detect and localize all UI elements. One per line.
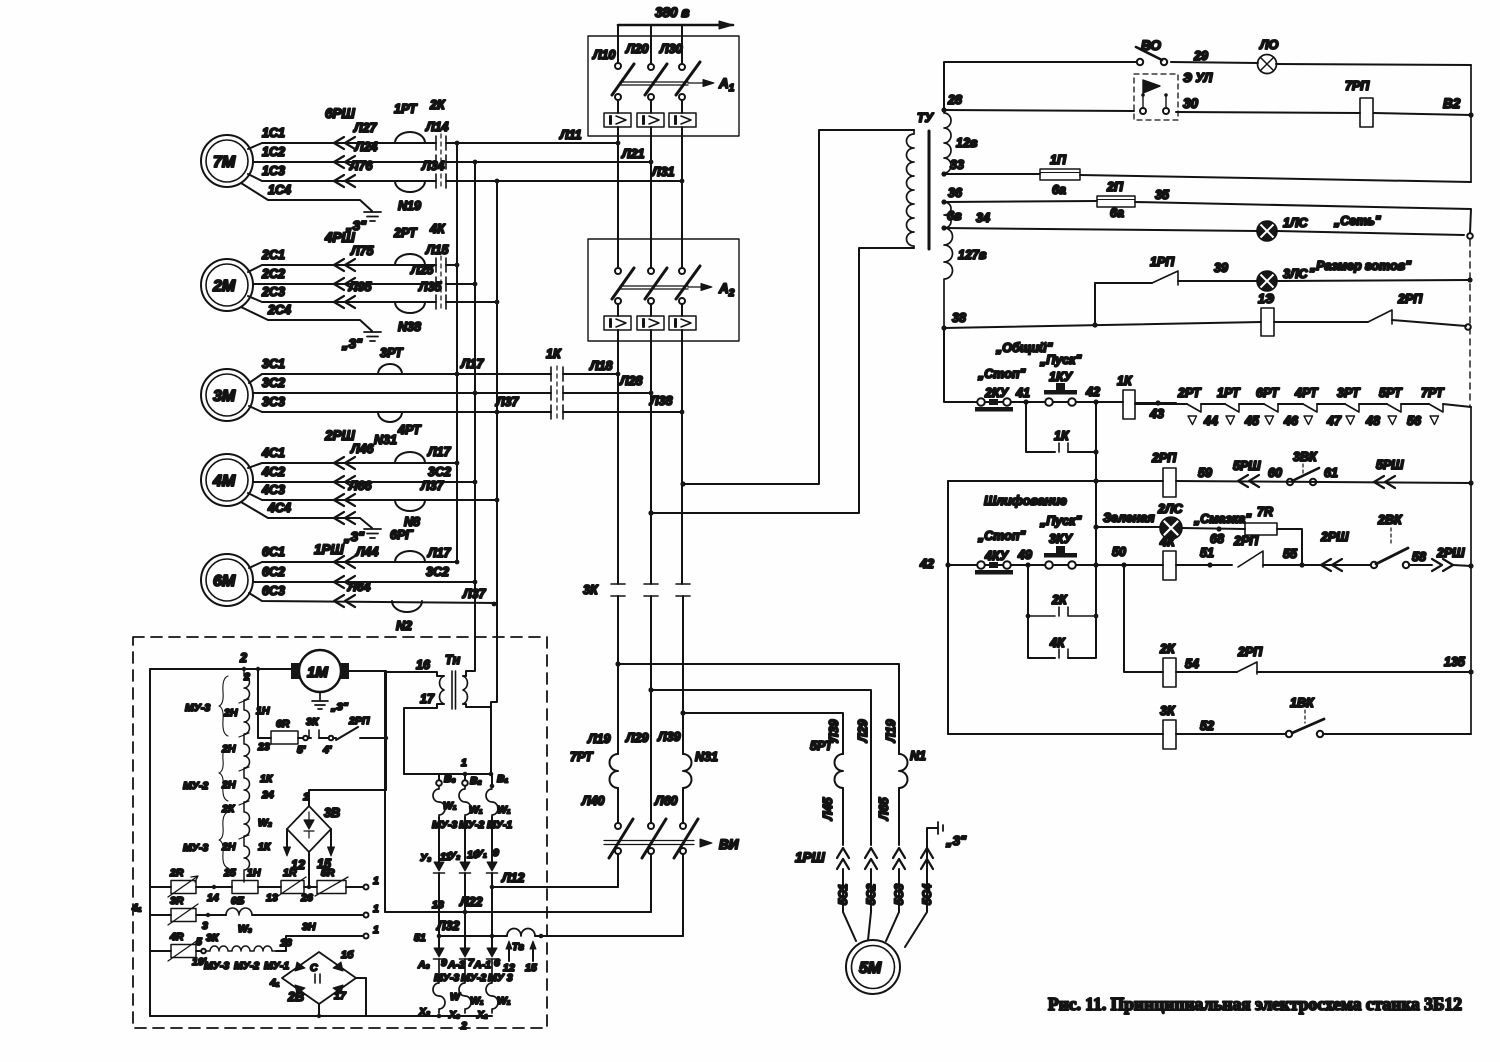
- wire 1К to РТ chain: [1135, 402, 1176, 404]
- wire branch 5M phase3: [683, 713, 843, 754]
- svg-text:1КУ: 1КУ: [1049, 370, 1074, 384]
- ground 1M: [312, 692, 328, 709]
- terminal 1 row A: [364, 885, 369, 890]
- overload heater N8: [395, 500, 425, 511]
- svg-text:7РП: 7РП: [1345, 79, 1370, 93]
- lamp 3ЛС: [1257, 271, 1277, 291]
- svg-text:W₁: W₁: [443, 800, 457, 812]
- winding МУ-2 upper: [459, 786, 471, 817]
- svg-text:2С4: 2С4: [267, 303, 291, 317]
- svg-text:Л37: Л37: [420, 479, 445, 493]
- svg-text:Л64: Л64: [347, 580, 371, 594]
- svg-text:С: С: [310, 962, 318, 974]
- brace MU-3 lower: [219, 812, 228, 868]
- svg-text:51: 51: [414, 932, 426, 944]
- contact 6РТ: [1264, 404, 1278, 412]
- svg-text:3R: 3R: [170, 895, 184, 907]
- overload heater 2RT: [395, 254, 425, 265]
- switch ВИ linkage arrow: [604, 841, 694, 845]
- motor 7M: [201, 135, 253, 187]
- wire 5РТ to chevrons phase3: [842, 788, 844, 845]
- transformer ТУ primary winding: [907, 130, 914, 248]
- svg-text:А-1: А-1: [473, 959, 491, 971]
- svg-text:„Смазка": „Смазка": [1193, 512, 1252, 526]
- svg-text:1ЛС: 1ЛС: [1283, 216, 1309, 230]
- button Стоп 2КУ: [968, 398, 1026, 411]
- svg-text:Л14: Л14: [425, 120, 449, 134]
- svg-text:„Размер готов": „Размер готов": [1309, 259, 1412, 273]
- svg-text:30: 30: [1183, 96, 1199, 111]
- wire row Л12: [492, 886, 618, 888]
- svg-text:7R: 7R: [1257, 505, 1273, 519]
- resistor row A wire: [150, 886, 171, 888]
- terminal row38 end: [1465, 324, 1471, 330]
- svg-text:1С2: 1С2: [262, 145, 285, 159]
- wire 54 row: [1176, 671, 1471, 673]
- thermal trip element A1 pole2: [637, 113, 664, 127]
- diode А2: [460, 948, 470, 957]
- amplifier unit dashed enclosure: [133, 637, 547, 1028]
- terminal В2: [464, 774, 466, 780]
- solenoid ЭУЛ contacts: [1140, 108, 1146, 114]
- svg-text:6РГ: 6РГ: [390, 528, 414, 542]
- connector chevrons 5С3: [893, 848, 905, 869]
- svg-text:1М: 1М: [307, 664, 328, 681]
- svg-text:„Сеть": „Сеть": [1333, 214, 1382, 228]
- svg-text:1: 1: [373, 875, 379, 887]
- connector chevrons 4C3: [334, 494, 355, 506]
- transformer Тн left coil: [440, 676, 444, 704]
- svg-text:6а: 6а: [1052, 183, 1066, 197]
- svg-text:4РШ: 4РШ: [324, 230, 356, 245]
- wire phase bus x497: [491, 181, 497, 706]
- svg-text:52: 52: [1200, 719, 1214, 733]
- svg-text:35: 35: [1155, 188, 1170, 202]
- svg-text:9: 9: [441, 957, 447, 969]
- resistor 2R: [171, 881, 196, 894]
- capacitor in 2В: [315, 974, 320, 983]
- svg-text:17: 17: [334, 990, 347, 1002]
- thermal trip element A2 pole3: [669, 316, 696, 330]
- svg-text:1К: 1К: [258, 841, 272, 853]
- svg-text:W₁: W₁: [470, 995, 484, 1007]
- relay coil 3К: [1163, 720, 1176, 749]
- winding МУ-1 lower: [486, 959, 498, 1013]
- svg-text:2Н: 2Н: [221, 779, 236, 791]
- wire 6C3: [249, 593, 497, 603]
- breaker A1 pole 3 lower contact: [679, 94, 685, 100]
- switch ВО right contact: [1161, 59, 1167, 65]
- contact 2РП (54 row break): [1237, 662, 1257, 674]
- svg-text:2РП: 2РП: [1237, 645, 1263, 659]
- svg-text:Л19: Л19: [587, 732, 611, 746]
- wire phase L10 drop to A1: [617, 25, 619, 62]
- svg-text:Х₂: Х₂: [418, 1006, 430, 1018]
- svg-text:МУ-3: МУ-3: [185, 702, 210, 714]
- resistor 1R: [281, 881, 304, 894]
- svg-text:4РТ: 4РТ: [397, 423, 422, 437]
- breaker box A2: [588, 239, 739, 341]
- button Стоп 4КУ: [968, 561, 1028, 574]
- relay coil 1К: [1123, 390, 1135, 419]
- junction dots 2К aux row: [1026, 614, 1099, 619]
- svg-text:6в: 6в: [947, 209, 962, 223]
- svg-text:6М: 6М: [213, 573, 236, 590]
- terminal 4': [329, 736, 334, 741]
- terminal 5': [298, 737, 303, 739]
- svg-text:7М: 7М: [213, 154, 236, 171]
- svg-text:В₂: В₂: [470, 775, 482, 787]
- junction dot 42 left bus: [945, 562, 950, 567]
- svg-text:Л24: Л24: [354, 140, 378, 154]
- connector chevrons 2C2: [334, 278, 355, 290]
- terminal В1: [491, 774, 493, 786]
- svg-text:26: 26: [300, 892, 313, 904]
- Тг tap 15: [532, 946, 534, 961]
- breaker A1 pole 2 blade: [645, 64, 667, 95]
- connector chevrons 1C2: [334, 156, 355, 168]
- resistor 5R: [304, 886, 317, 888]
- ground 2M: [364, 332, 381, 341]
- svg-text:Л32: Л32: [436, 919, 460, 933]
- breaker A1 trip arrow to A1: [688, 82, 712, 84]
- svg-text:2R: 2R: [169, 867, 184, 879]
- svg-text:W: W: [450, 991, 461, 1003]
- svg-text:4С1: 4С1: [261, 446, 285, 460]
- wire pole1 to trip element: [617, 100, 619, 113]
- svg-text:2РП: 2РП: [348, 715, 370, 727]
- bridge 2В diodes: [295, 962, 343, 994]
- connector chevrons 6C1: [334, 556, 355, 568]
- svg-text:4R: 4R: [169, 931, 184, 943]
- wire phase bus x457: [456, 143, 458, 562]
- motor 4M: [201, 454, 253, 506]
- svg-text:1: 1: [461, 757, 467, 769]
- switch ВИ pole1 blade: [609, 819, 633, 858]
- wire 5С2 to motor: [868, 869, 871, 940]
- svg-text:N2: N2: [396, 619, 412, 633]
- wire column x618 3K to VI: [617, 596, 619, 823]
- contact 4К aux: [1059, 649, 1068, 658]
- winding chain MU (vertical): [244, 669, 250, 882]
- svg-text:2РШ: 2РШ: [1436, 546, 1465, 560]
- svg-text:Л19: Л19: [884, 719, 898, 743]
- winding МУ-3 upper: [433, 786, 445, 817]
- button Пуск 1КУ: [1026, 383, 1096, 406]
- junction dots Л32: [437, 934, 544, 939]
- svg-text:4С2: 4С2: [261, 465, 285, 479]
- svg-text:„Стоп": „Стоп": [977, 367, 1026, 381]
- wire РТ chain to right edge: [1443, 404, 1471, 407]
- transformer ТУ secondary 12в: [944, 110, 951, 174]
- wire L21 bus column x651 A1 to A2: [650, 127, 652, 268]
- junction dots A-columns: [616, 141, 685, 415]
- svg-text:28: 28: [947, 93, 962, 107]
- svg-text:Л17: Л17: [427, 445, 452, 459]
- resistor 7R: [1245, 523, 1277, 535]
- contact 1K pole2: [551, 386, 563, 400]
- wire node 2 top row: [150, 668, 299, 670]
- svg-text:33: 33: [950, 158, 964, 172]
- winding МУ-3 lower: [433, 959, 445, 1013]
- junction dot 59 right: [1468, 480, 1473, 485]
- chain tap ticks: [239, 699, 249, 839]
- svg-text:МУ-3: МУ-3: [204, 960, 229, 972]
- wire 1C2: [253, 161, 651, 163]
- svg-text:МУ-3: МУ-3: [183, 842, 208, 854]
- svg-text:МУ-2: МУ-2: [234, 960, 259, 972]
- svg-text:6С1: 6С1: [262, 545, 285, 559]
- svg-text:2РП: 2РП: [1151, 451, 1177, 465]
- svg-text:Л39: Л39: [827, 719, 841, 743]
- svg-text:Л29: Л29: [856, 719, 870, 743]
- wire ВИ pole3 down to Л32 row: [682, 854, 684, 936]
- svg-text:1РТ: 1РТ: [1217, 386, 1241, 400]
- node 43: [1155, 400, 1160, 405]
- svg-text:51: 51: [1200, 546, 1214, 560]
- junction dot bottom row: [317, 1014, 321, 1018]
- connector chevrons 4C4: [334, 512, 355, 524]
- transformer ТУ core: [928, 131, 931, 249]
- wires below У diodes: [439, 873, 492, 948]
- svg-text:3К: 3К: [206, 932, 220, 944]
- svg-text:2В: 2В: [287, 990, 304, 1004]
- svg-text:Рис. 11. Принципиальная электр: Рис. 11. Принципиальная электросхема ста…: [1048, 994, 1462, 1014]
- switch ВИ pole1 contacts: [615, 823, 621, 829]
- svg-text:68: 68: [1210, 532, 1224, 546]
- connector chevrons 2РШ left: [1321, 559, 1342, 571]
- contact 4K pole2: [436, 277, 446, 291]
- svg-text:3С2: 3С2: [262, 376, 285, 390]
- svg-text:1РШ: 1РШ: [795, 850, 826, 865]
- svg-text:2: 2: [239, 651, 247, 665]
- svg-text:Тг: Тг: [512, 941, 524, 953]
- breaker A1 pole 2 lower contact: [648, 94, 654, 100]
- breaker A2 pole 2 upper contact: [648, 268, 654, 274]
- relay coil 2К: [1163, 658, 1176, 687]
- diode У3: [434, 862, 444, 871]
- overload heater N38: [395, 302, 425, 313]
- motor 1M: [299, 650, 341, 692]
- wire 41 down to 1К aux: [1026, 402, 1055, 452]
- switch ВИ pole2 blade: [642, 819, 666, 858]
- svg-text:Л65: Л65: [877, 796, 891, 821]
- wire 4C4: [241, 502, 372, 528]
- contact 1К aux: [1059, 443, 1068, 452]
- junction dots top row: [242, 667, 260, 671]
- wire 42 to 1К coil: [1096, 401, 1123, 403]
- overload heater 7РТ column: [610, 754, 619, 788]
- svg-text:2ВК: 2ВК: [1377, 513, 1403, 527]
- wire 1C3: [248, 174, 682, 181]
- svg-text:2С1: 2С1: [261, 248, 285, 262]
- contact 2RP (unit): [333, 727, 386, 740]
- thermal trip element A1 pole3: [669, 113, 696, 127]
- breaker A2 pole 2 blade: [645, 268, 667, 299]
- ground 4M: [364, 529, 381, 538]
- node 3: [206, 913, 210, 917]
- junction dot 1К aux: [1093, 449, 1098, 454]
- resistor row B wire: [150, 914, 171, 916]
- diode У1: [487, 862, 497, 871]
- wire column x651 3K to VI: [650, 596, 652, 823]
- wire row 34 Сеть: [944, 228, 1464, 235]
- svg-text:2К: 2К: [221, 803, 236, 815]
- wire 59 row: [948, 481, 1471, 483]
- junction dot 39 branch: [1092, 322, 1097, 327]
- breaker A1 pole 1 lower contact: [615, 94, 621, 100]
- ground 7M: [364, 212, 381, 221]
- contact 2К aux: [1028, 607, 1096, 616]
- contact 4РТ: [1303, 404, 1317, 412]
- svg-text:2П: 2П: [1106, 180, 1124, 194]
- svg-text:N1: N1: [910, 749, 926, 763]
- svg-text:41: 41: [1015, 386, 1030, 400]
- breaker A1 pole 1 blade: [612, 64, 634, 95]
- svg-text:4РТ: 4РТ: [1294, 386, 1319, 400]
- overload heater 5РТ: [835, 754, 844, 788]
- svg-text:Л11: Л11: [559, 128, 582, 142]
- switch 1ВК linkage dash: [1304, 710, 1306, 723]
- arrowhead 380v: [719, 21, 733, 29]
- wire 42 bus down: [1095, 402, 1097, 565]
- svg-text:3ВК: 3ВК: [1293, 450, 1318, 464]
- svg-text:3С2: 3С2: [426, 565, 449, 579]
- fuse 2П: [1097, 196, 1135, 207]
- svg-text:А-2: А-2: [447, 959, 465, 971]
- svg-text:4₁: 4₁: [131, 902, 142, 914]
- connector chevrons 4C1: [334, 457, 355, 469]
- svg-text:4С3: 4С3: [261, 483, 285, 497]
- contact 1K pole3: [551, 405, 563, 419]
- wire phase L30 drop to A1: [681, 25, 683, 63]
- wire Шлифование row middle: [1124, 564, 1371, 566]
- node 33: [941, 171, 946, 176]
- node 49: [1025, 562, 1030, 567]
- svg-text:Л25: Л25: [410, 263, 435, 277]
- wire 3C2: [253, 392, 651, 394]
- junction dot Л12: [490, 885, 495, 890]
- svg-text:Л60: Л60: [654, 794, 678, 808]
- svg-text:4К: 4К: [1159, 535, 1176, 549]
- wire ТУ primary feed from Л38 row: [683, 130, 914, 484]
- svg-text:Л44: Л44: [355, 545, 379, 559]
- contact 2РП (make): [1238, 551, 1263, 567]
- svg-text:56: 56: [1407, 414, 1422, 428]
- svg-text:46: 46: [1283, 414, 1299, 428]
- svg-text:МУ-2: МУ-2: [183, 780, 208, 792]
- svg-text:4С4: 4С4: [267, 501, 291, 515]
- svg-text:Л66: Л66: [348, 479, 373, 493]
- motor 5M: [846, 940, 900, 994]
- svg-text:3К: 3К: [1160, 704, 1176, 718]
- node 41: [1023, 399, 1028, 404]
- svg-text:14: 14: [207, 892, 219, 904]
- svg-text:1С3: 1С3: [262, 164, 285, 178]
- button Пуск 3КУ: [1028, 546, 1124, 569]
- svg-text:5М: 5М: [859, 960, 882, 977]
- svg-text:2Н: 2Н: [223, 707, 238, 719]
- svg-text:2С2: 2С2: [261, 267, 285, 281]
- thermal trip element A1 pole1: [604, 113, 631, 127]
- ground 5M: [938, 822, 943, 834]
- contact 2K pole2: [436, 155, 446, 169]
- wire 4C1: [248, 463, 457, 468]
- wire 6C2: [253, 581, 475, 583]
- connector chevrons 1C3: [334, 175, 355, 187]
- junction dot Л28 feed: [648, 510, 653, 515]
- wire row 33 fuse 1П: [944, 174, 1471, 182]
- svg-text:4К: 4К: [429, 222, 446, 236]
- wire row 38 (1Э): [944, 320, 1466, 328]
- svg-text:3С2: 3С2: [428, 465, 451, 479]
- wire left bus of unit: [149, 669, 151, 1016]
- svg-text:59: 59: [1198, 466, 1212, 480]
- wire ТУ primary feed from Л28 row: [651, 248, 914, 513]
- svg-text:1К: 1К: [546, 347, 562, 361]
- thermal trip element A2 pole1: [604, 316, 631, 330]
- transformer ТУ secondary 127в: [944, 228, 953, 328]
- wire 3В bottom to node 26: [308, 852, 310, 887]
- windings W3 row C: [206, 946, 276, 951]
- contact 1РТ: [1225, 404, 1239, 412]
- svg-text:1R: 1R: [283, 867, 297, 879]
- overload heater 3RT: [378, 364, 402, 374]
- svg-text:1С1: 1С1: [262, 126, 285, 140]
- svg-text:6С3: 6С3: [262, 584, 285, 598]
- resistor row C wire: [150, 950, 171, 952]
- wire 1C4: [241, 183, 372, 211]
- svg-text:4М: 4М: [212, 473, 236, 490]
- connector chevrons 5РШ (59 row): [1238, 475, 1259, 487]
- svg-text:1С4: 1С4: [268, 183, 291, 197]
- svg-text:N31: N31: [374, 433, 397, 447]
- wire column x618 A2 to 3K: [617, 330, 619, 584]
- svg-text:15: 15: [525, 962, 537, 974]
- svg-text:В₃: В₃: [444, 773, 456, 785]
- wire 0Б to terminal 1: [252, 914, 363, 916]
- wire phase bus x475: [466, 162, 475, 676]
- wire 42bus down to aux contacts: [1068, 565, 1096, 658]
- svg-text:7РТ: 7РТ: [570, 750, 594, 764]
- contact 4K pole1: [436, 258, 446, 272]
- wire 1M right lead: [345, 671, 386, 790]
- svg-text:Л30: Л30: [659, 42, 683, 56]
- junction dot 54 right: [1468, 669, 1473, 674]
- svg-text:3РТ: 3РТ: [380, 346, 404, 360]
- svg-text:2РТ: 2РТ: [1177, 386, 1202, 400]
- svg-text:Шлифование: Шлифование: [984, 494, 1067, 508]
- wire to next contact: [1201, 403, 1225, 405]
- contact 5РТ: [1387, 404, 1401, 412]
- contact 1K pole1: [551, 367, 563, 381]
- connector chevrons 1C1: [334, 137, 355, 149]
- wire Тн terminal 16: [385, 672, 444, 912]
- svg-text:38: 38: [952, 311, 966, 325]
- breaker A2 pole 3 upper contact: [679, 268, 685, 274]
- svg-text:2РТ: 2РТ: [393, 226, 418, 240]
- wire 2В bottom to bottom row: [318, 1004, 320, 1016]
- switch ВИ pole3 blade: [674, 819, 698, 858]
- svg-text:3С1: 3С1: [262, 357, 285, 371]
- wire row Л22: [385, 911, 651, 913]
- wire 2C4: [241, 307, 372, 331]
- svg-text:54: 54: [1185, 657, 1199, 671]
- wire right edge vertical main: [1470, 407, 1472, 734]
- arrow lead 15: [330, 829, 332, 850]
- svg-text:Л76: Л76: [349, 159, 374, 173]
- svg-text:Л75: Л75: [350, 244, 375, 258]
